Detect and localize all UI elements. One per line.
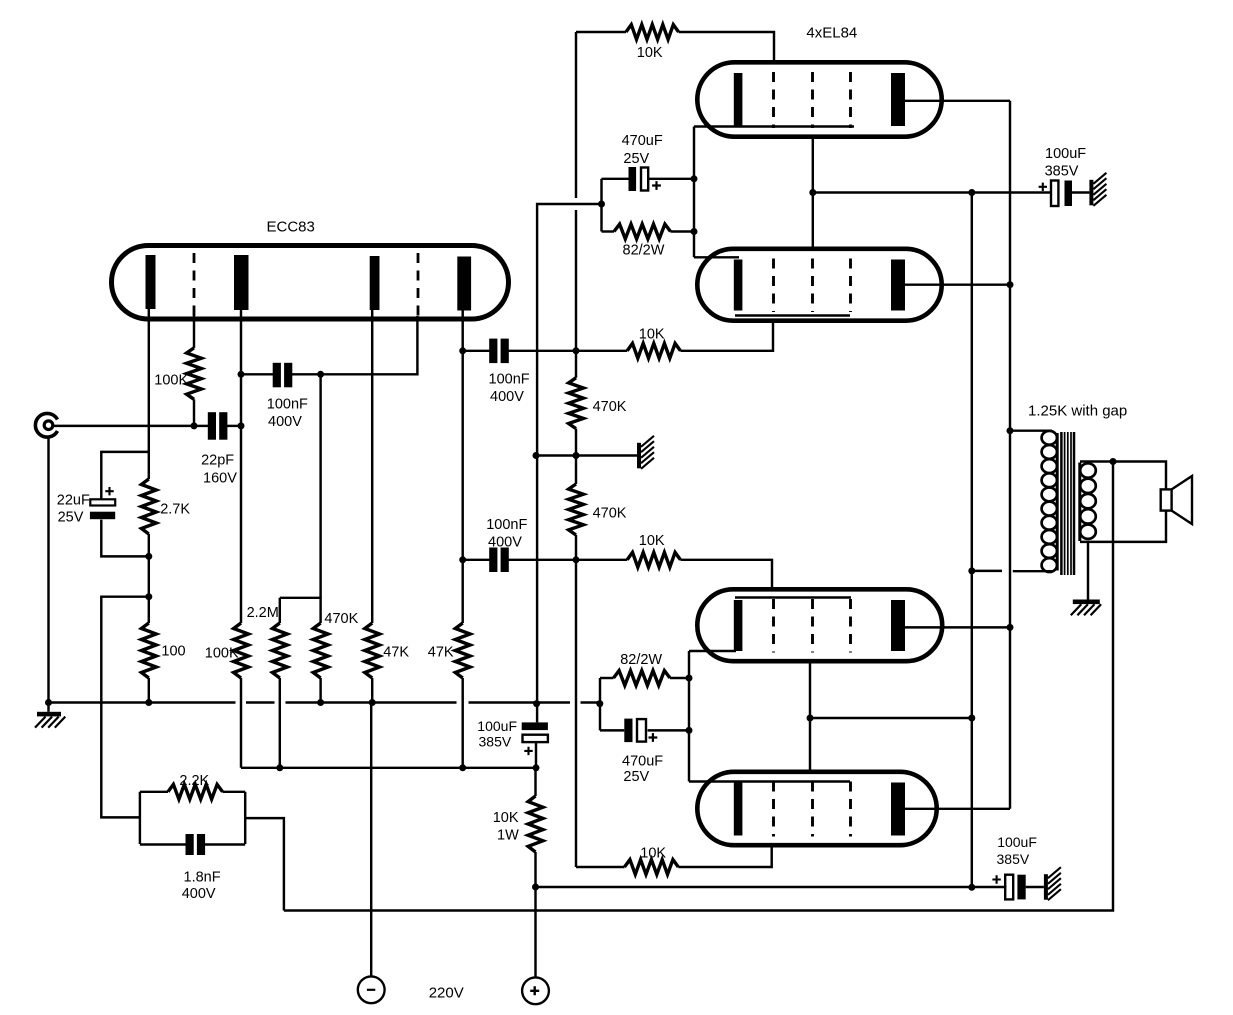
wire secondary to ground: [1087, 542, 1089, 600]
svg-text:470K: 470K: [593, 399, 627, 415]
feedback wire from secondary to 2.2K network: [284, 462, 1113, 911]
wire RC left rail: [600, 179, 602, 232]
svg-text:82/2W: 82/2W: [623, 242, 665, 258]
svg-text:100uF: 100uF: [1045, 146, 1086, 162]
svg-text:2.2K: 2.2K: [179, 773, 209, 789]
ground rail (center vertical): [536, 350, 538, 722]
svg-text:10K: 10K: [639, 533, 665, 549]
junction at 601.5,204: [598, 201, 605, 208]
wire resistor wiring: [602, 230, 615, 232]
junction at 971.8,887.3: [968, 884, 975, 891]
junction at 810,718: [807, 715, 814, 722]
ground symbol (transformer secondary): [1073, 600, 1100, 605]
junction at 48.5,702.5: [45, 699, 52, 706]
terminal -220V: [358, 976, 385, 1003]
svg-text:4xEL84: 4xEL84: [806, 25, 857, 42]
wire anode1 to cap: [241, 373, 274, 375]
svg-text:100uF: 100uF: [477, 718, 517, 734]
svg-text:220V: 220V: [429, 985, 464, 1002]
wire cap to grid2, via corner: [291, 316, 418, 374]
EL84 tube V3 (second): [697, 249, 941, 321]
wire resistor to +220V node: [534, 852, 536, 977]
svg-text:100K: 100K: [205, 646, 239, 662]
svg-text:100: 100: [161, 644, 185, 660]
EL84 tube V5 (bottom): [697, 772, 936, 845]
junction at 694,178.8: [691, 175, 698, 182]
wire stub to ground symbol: [47, 703, 49, 712]
wire RC left rail: [599, 678, 601, 730]
ground bus wire (bottom left, with hops): [49, 701, 236, 703]
ground symbol (bottom right): [1044, 874, 1048, 900]
svg-text:100nF: 100nF: [489, 372, 530, 388]
svg-text:1.25K with gap: 1.25K with gap: [1028, 403, 1127, 420]
wire cathode1 column: [148, 309, 150, 479]
wire 2.2M bottom to B+ line: [279, 678, 281, 768]
wire network left rail: [139, 792, 141, 844]
junction at 576,455.5: [573, 452, 580, 459]
capacitor 100nF 400V (coupling to upper grids): [489, 339, 497, 364]
resistor 470K (lower divider): [569, 484, 584, 535]
svg-text:2.2M: 2.2M: [247, 605, 279, 621]
svg-text:82/2W: 82/2W: [620, 652, 662, 668]
resistor 10K (grid, V5): [625, 860, 679, 875]
resistor 470K (to ground): [313, 623, 328, 678]
svg-text:100nF: 100nF: [267, 397, 308, 413]
wire screen grids V2-V3 tie: [812, 136, 814, 249]
capacitor 22pF: [208, 412, 216, 440]
resistor 10K (grid, V2): [626, 25, 679, 40]
resistor 2.7K (cathode bias): [141, 479, 156, 534]
junction at 694,231.5: [691, 228, 698, 235]
wire jack shield down to ground bus: [47, 437, 49, 703]
svg-text:385V: 385V: [997, 851, 1030, 867]
junction at 536,767.8: [533, 764, 540, 771]
ground symbol (top right): [1089, 180, 1093, 206]
junction at 320.6,374.3: [317, 371, 324, 378]
wire primary bottom to B+ rail (hop over anode rail): [972, 570, 1002, 572]
svg-text:22pF: 22pF: [201, 453, 234, 469]
wire secondary top to speaker: [1080, 462, 1166, 490]
resistor 10K 1W (B+ dropper): [528, 796, 543, 852]
junction at 536.6,703.6: [533, 700, 540, 707]
capacitor 100nF 400V (coupling, anode1 to grid2): [273, 363, 281, 388]
wire cap to 10K grid resistor: [507, 350, 627, 352]
wire 10K to grid of V2: [679, 32, 774, 63]
junction at 576,350.8: [573, 347, 580, 354]
svg-text:470K: 470K: [593, 506, 627, 522]
junction at 194,425.9: [191, 422, 198, 429]
junction at 1010,430.7: [1007, 427, 1014, 434]
junction at 971.8,718: [968, 715, 975, 722]
svg-text:400V: 400V: [182, 886, 216, 902]
junction at 971.8,570.9: [968, 567, 975, 574]
resistor 82/2W: [614, 671, 671, 686]
junction at 241,425.9: [238, 422, 245, 429]
wire screen grids V4-V5 tie: [809, 661, 811, 773]
wire cap wiring: [602, 178, 629, 180]
resistor 100 (cathode): [141, 623, 156, 678]
wire 10K to grid of V5: [678, 845, 771, 867]
bottom grid feed wire: [576, 866, 625, 868]
junction at 320.6,702.5: [317, 699, 324, 706]
svg-text:385V: 385V: [479, 734, 512, 750]
capacitor 470uF 25V: [624, 719, 632, 743]
capacitor 100uF 385V (main filter, bottom right): [1005, 875, 1013, 900]
primary winding: [1056, 433, 1059, 571]
svg-text:25V: 25V: [623, 769, 649, 785]
svg-text:160V: 160V: [203, 471, 237, 487]
svg-text:ECC83: ECC83: [267, 218, 315, 235]
junction at 462.7,350.8: [459, 347, 466, 354]
wire B+ node to resistor: [534, 768, 536, 796]
capacitor 100nF 400V (coupling to lower grids): [489, 548, 497, 573]
wire 10K to grid of V4: [680, 560, 772, 590]
input jack J1: [35, 413, 57, 437]
resistor 10K (grid, V3): [627, 343, 680, 358]
svg-text:22uF: 22uF: [57, 493, 90, 509]
wire cap to ground: [1072, 191, 1089, 193]
EL84 tube V2 (top): [697, 62, 941, 136]
resistor 82/2W: [614, 224, 671, 239]
junction at 148.8,596.7: [145, 593, 152, 600]
junction at 812.8,192.5: [809, 189, 816, 196]
junction at 241,374.3: [238, 371, 245, 378]
wire screens to B+ rail and filter cap: [813, 191, 1051, 193]
capacitor 22uF 25V (cathode bypass): [90, 499, 115, 505]
svg-text:2.7K: 2.7K: [160, 502, 190, 518]
wire input jack to grid junction A: [53, 425, 194, 427]
grid bias rail (vertical, with 470K divider): [575, 32, 577, 198]
terminal +220V: [522, 977, 549, 1004]
svg-text:470uF: 470uF: [622, 754, 663, 770]
wire network to cathode1: [101, 597, 149, 818]
svg-text:385V: 385V: [1045, 164, 1079, 180]
wire anode2 column: [461, 311, 463, 624]
wire 47K bottom to B+ line: [461, 678, 463, 768]
B+ feed line to preamp: [241, 767, 536, 769]
wire +220V node to right filter: [536, 886, 1007, 888]
resistor 100K (grid stopper, triode 1): [187, 348, 202, 399]
wire cap bottom to B+ node: [535, 742, 537, 768]
svg-text:10K: 10K: [493, 810, 519, 826]
ground wire to chassis (middle): [536, 454, 637, 456]
wire primary top: [1010, 429, 1052, 431]
resistor 2.2K: [168, 784, 223, 799]
wire jog to 2.2M: [280, 598, 321, 623]
wire grid2 bias divider column: [319, 374, 321, 598]
wire secondary bottom / speaker return: [1080, 511, 1166, 542]
wire 22uF top to cathode column: [101, 452, 149, 499]
wire cathode rail V4-V5: [688, 651, 690, 782]
wire screens 3-4 to B+ rail: [810, 717, 972, 719]
svg-text:100nF: 100nF: [486, 517, 527, 533]
wire cap to ground: [1026, 886, 1044, 888]
svg-text:47K: 47K: [428, 644, 454, 660]
svg-text:470uF: 470uF: [622, 133, 663, 149]
capacitor 100uF 385V (screen filter, top right): [1051, 181, 1058, 207]
wire anode2 to cap: [463, 350, 491, 352]
B+ screen rail (vertical right): [971, 193, 973, 888]
ECC83 dual triode V1: [112, 246, 509, 320]
junction at 689,730.4: [686, 727, 693, 734]
resistor 47K (plate load, triode 2): [455, 623, 470, 678]
ground symbol (middle): [637, 443, 641, 469]
resistor 470K (upper divider): [569, 378, 584, 429]
wire 10K to grid of V3: [680, 320, 773, 351]
wire -220V to ground bus: [370, 703, 372, 977]
resistor 47K (cathode, triode 2): [365, 623, 380, 678]
top grid feed wire: [576, 31, 626, 33]
capacitor 470uF 25V: [629, 167, 637, 191]
svg-text:25V: 25V: [58, 510, 84, 526]
svg-text:100K: 100K: [154, 373, 188, 389]
svg-text:25V: 25V: [623, 151, 649, 167]
junction at 1010,627.4: [1007, 624, 1014, 631]
speaker LS1: [1161, 489, 1172, 510]
wire RC to ground rail corner: [537, 204, 601, 350]
junction at 536,455.5: [533, 452, 540, 459]
svg-text:10K: 10K: [637, 45, 663, 61]
resistor 10K (grid, V4): [627, 552, 680, 567]
wire cathode rail V2-V3: [693, 127, 695, 258]
junction at 1010,284.7: [1007, 281, 1014, 288]
svg-text:100uF: 100uF: [997, 834, 1037, 850]
junction at 462.7,559.8: [459, 556, 466, 563]
EL84 tube V4 (third): [697, 589, 942, 661]
wire 22pF to anode1 column: [226, 425, 241, 427]
junction at 535.5,887: [532, 884, 539, 891]
resistor 100K (plate load, triode 1): [234, 623, 249, 678]
anode bus rail (to output transformer): [1009, 101, 1011, 809]
svg-text:400V: 400V: [490, 389, 524, 405]
wire junction A to 22pF: [194, 425, 209, 427]
junction at 462.7,767.8: [459, 764, 466, 771]
svg-text:1.8nF: 1.8nF: [184, 869, 221, 885]
resistor 2.2M: [272, 623, 287, 678]
capacitor 1.8nF 400V: [186, 834, 194, 855]
junction at 1113,461.5: [1110, 458, 1117, 465]
junction at 148.8,556.4: [145, 553, 152, 560]
svg-text:400V: 400V: [488, 535, 522, 551]
transformer core laminations: [1060, 432, 1063, 575]
svg-text:400V: 400V: [268, 414, 302, 430]
secondary winding: [1078, 463, 1081, 542]
junction at 279.8,767.8: [276, 764, 283, 771]
junction at 971.8,192.5: [968, 189, 975, 196]
svg-text:470K: 470K: [324, 611, 358, 627]
wire cathode2 column: [371, 310, 373, 623]
junction at 689,678: [686, 675, 693, 682]
wire cap to 10K grid resistor: [507, 559, 627, 561]
svg-text:10K: 10K: [640, 845, 666, 861]
svg-text:10K: 10K: [639, 327, 665, 343]
junction at 599.8,703.6: [596, 700, 603, 707]
wire 22uF bottom to cathode column: [101, 520, 149, 557]
wire grid1 column: [193, 314, 195, 348]
junction at 148.8,702.5: [145, 699, 152, 706]
svg-text:47K: 47K: [383, 644, 409, 660]
capacitor 100uF 385V (B+ filter, center): [522, 722, 548, 730]
wire anode1 column (triode1 plate): [240, 310, 242, 623]
wire anode2 to cap: [463, 559, 491, 561]
junction at 576,559.8: [573, 556, 580, 563]
wire 470K bottom to ground bus: [319, 678, 321, 703]
ground symbol at input jack: [37, 712, 61, 717]
svg-text:1W: 1W: [497, 828, 519, 844]
wire 100K bottom to B+ line: [240, 678, 242, 768]
junction at 372.2,702.5: [369, 699, 376, 706]
wire network right rail: [244, 792, 246, 844]
